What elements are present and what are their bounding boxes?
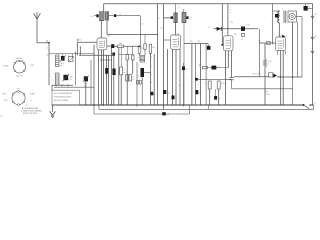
svg-text:PLATE: PLATE: [30, 92, 36, 95]
resistor R8 zigzag: [263, 60, 266, 67]
svg-text:ose: ose: [46, 55, 49, 57]
wire V2 grid link: [164, 39, 171, 41]
svg-text:WITH NO SIGNAL: WITH NO SIGNAL: [54, 99, 68, 102]
svg-text:10: 10: [132, 79, 134, 81]
svg-text:mf: mf: [123, 72, 125, 74]
wire antenna lead-in: [37, 42, 49, 44]
wire T2 tap down: [175, 23, 177, 35]
svg-text:FROM TOP SIDE: FROM TOP SIDE: [23, 113, 38, 115]
switch S1 dot: [303, 104, 305, 106]
wire sec drop b: [301, 17, 303, 78]
svg-text:2M: 2M: [217, 67, 220, 69]
wire R7 drop: [218, 89, 220, 105]
wire osc feed drop: [139, 16, 141, 47]
wire C23 drop: [183, 70, 185, 107]
inductor L3 secondary: [77, 41, 97, 43]
wire antenna down-lead: [48, 43, 50, 86]
wire into V4 grid: [259, 42, 275, 44]
resistor R5: [203, 66, 208, 69]
capacitor C1 tuning gang: [61, 56, 65, 61]
svg-text:SHOWN AT SOCKETS: SHOWN AT SOCKETS: [54, 95, 72, 98]
wire B minus bus: [99, 108, 314, 110]
wire ground bus right: [309, 104, 313, 106]
node T1 right dot: [114, 14, 116, 17]
node pot net b: [292, 76, 294, 78]
wire mid drop 106: [105, 55, 107, 105]
socket diagram SK2 circle: [12, 91, 25, 104]
wire R2 down: [139, 53, 141, 55]
capacitor C5 coupling: [111, 44, 114, 48]
wire V3 lead 2: [227, 51, 229, 68]
wire AVC rail: [221, 4, 223, 45]
wire C22 drop bottom: [120, 75, 122, 105]
wire mid drop 111: [110, 47, 112, 105]
label bias note: [264, 91, 266, 96]
wire C19 tie: [305, 4, 307, 6]
wire IF line: [184, 43, 208, 45]
wire ground bus: [52, 104, 304, 106]
op-amp V4 output tube: [276, 37, 286, 51]
battery B3 chevron: [311, 51, 314, 53]
svg-text:ALL VOLTAGE VALUES: ALL VOLTAGE VALUES: [54, 92, 73, 95]
wire B minus riser b: [313, 105, 315, 109]
svg-text:50: 50: [137, 76, 139, 78]
wire R8 bottom: [264, 67, 266, 106]
wire T3 rail A: [150, 53, 152, 105]
wire C22 drop top: [120, 46, 122, 67]
capacitor C24 coupling: [207, 46, 211, 50]
wire R3 drop: [144, 35, 146, 44]
svg-text:C: C: [53, 80, 55, 82]
svg-text:2: 2: [138, 65, 139, 67]
capacitor C23 bypass: [182, 67, 185, 71]
resistor R1: [118, 45, 124, 48]
inductor L1 antenna coil: [56, 55, 60, 67]
node bus j1: [93, 104, 95, 106]
wire T1 secondary drop: [106, 20, 108, 35]
wire V1 cathode lead 2: [100, 50, 102, 105]
wire V4 plate top: [278, 23, 280, 37]
svg-text:L5: L5: [189, 19, 191, 21]
wire pot out: [277, 76, 302, 78]
wire B minus mid riser: [208, 105, 210, 109]
svg-text:T: T: [282, 9, 284, 11]
svg-text:L4: L4: [178, 7, 180, 9]
wire V2 lead 3: [175, 49, 177, 105]
wire gang tie: [62, 54, 64, 57]
diode D1: [217, 27, 221, 31]
node T2 right dot: [186, 16, 188, 19]
capacitor C19 blob: [304, 6, 308, 11]
wire V2 lead 1: [167, 49, 169, 105]
wire padder drop 2: [90, 60, 92, 105]
svg-text:4: 4: [129, 58, 130, 60]
wire trimmer drop: [74, 52, 76, 86]
svg-text:VOL CTRL: VOL CTRL: [252, 73, 261, 75]
svg-text:2: 2: [151, 74, 152, 76]
capacitor C14 on drop: [195, 90, 198, 94]
capacitor C6 bypass: [112, 53, 115, 56]
wire drop 192.5: [191, 44, 193, 105]
node T4 top blob: [275, 14, 279, 18]
svg-text:250v: 250v: [266, 94, 270, 96]
svg-text:5: 5: [204, 83, 205, 85]
svg-text:pF: pF: [70, 79, 72, 81]
wire mid drop 104: [103, 55, 105, 105]
wire cathode link 60: [100, 59, 111, 61]
svg-text:25: 25: [142, 24, 144, 26]
wire T1 dot link: [109, 15, 114, 17]
wire volume line: [234, 76, 269, 78]
capacitor C9 electrolytic: [141, 68, 145, 77]
wire T2 right down: [183, 23, 185, 105]
node pot net a: [280, 76, 282, 78]
svg-text:+: +: [138, 70, 139, 72]
speaker SP1 frame: [288, 11, 297, 22]
wire C7C8 top link: [119, 54, 134, 56]
svg-text:2k: 2k: [142, 48, 144, 50]
wire C8 drop: [132, 60, 134, 74]
wire V4 lead 1: [277, 51, 279, 56]
wire osc rail: [163, 4, 165, 110]
wire C6 drop: [113, 56, 115, 105]
wire cluster right rail: [93, 45, 95, 105]
svg-text:.1: .1: [154, 94, 156, 96]
wire V1 lead 3: [103, 50, 105, 56]
wire heater bus: [94, 113, 190, 115]
wire T3 link: [144, 72, 151, 74]
wire V3 lead 3: [231, 51, 233, 78]
wire mid drop 108: [107, 55, 109, 105]
resistor R2: [138, 47, 141, 53]
wire B minus riser a: [98, 105, 100, 109]
wire drop 200.5: [199, 44, 201, 105]
wire speaker drop: [292, 22, 294, 77]
svg-text:12: 12: [208, 27, 210, 29]
wire tuning lower link: [54, 86, 94, 88]
transformer T4 core: [283, 11, 285, 24]
wire sec link: [297, 16, 303, 18]
op-amp V3 detector tube: [224, 36, 234, 51]
label L3: [76, 39, 78, 41]
wire top B+ bus: [104, 3, 314, 5]
svg-text:0.05: 0.05: [246, 25, 250, 27]
svg-text:V3: V3: [234, 34, 237, 36]
node T1 left dot: [96, 14, 98, 17]
svg-text:+A: +A: [167, 113, 170, 116]
svg-text:A: A: [315, 12, 317, 15]
wire R1 out: [123, 45, 139, 47]
wire T4 feed: [272, 4, 274, 45]
wire T1 left link: [94, 15, 96, 17]
wire T1 feed from bus: [103, 4, 105, 12]
capacitor C3 tuning gang: [63, 75, 68, 80]
svg-text:25: 25: [241, 39, 243, 41]
svg-text:1: 1: [223, 17, 224, 19]
trimmer C11: [139, 81, 141, 85]
ground G1: [52, 105, 54, 112]
svg-text:.05: .05: [167, 92, 170, 94]
svg-text:12k: 12k: [190, 41, 193, 43]
wire T2 stub b: [183, 9, 185, 12]
svg-text:30k: 30k: [152, 47, 155, 49]
wire T3 rail B: [153, 54, 155, 105]
op-amp V1 pentagrid tube: [97, 38, 107, 50]
potentiometer VR1: [269, 73, 273, 77]
wire C9 bottom lead: [141, 77, 143, 105]
capacitor C8: [132, 55, 135, 60]
svg-text:41: 41: [26, 105, 28, 107]
svg-text:S: S: [314, 103, 316, 105]
wire drop 195.5: [195, 44, 197, 105]
capacitor C26 pair b: [129, 75, 132, 82]
wire V3 lead 1: [225, 51, 227, 105]
wire V1 plate out: [107, 45, 111, 47]
capacitor C12 on rail: [150, 92, 153, 96]
wire C18 down: [231, 80, 233, 89]
svg-text:7.5k: 7.5k: [197, 41, 201, 43]
svg-text:8: 8: [309, 6, 310, 8]
switch S1 lever: [304, 105, 310, 109]
wire R8 top: [264, 43, 266, 60]
svg-text:0.1: 0.1: [186, 68, 189, 70]
transformer T2 winding 1: [174, 13, 178, 23]
speaker SP1 cone: [289, 13, 295, 19]
trimmer C10: [137, 81, 139, 85]
capacitor C20 on bus: [162, 112, 166, 115]
wire R5 out: [208, 67, 229, 69]
svg-text:B: B: [0, 115, 2, 117]
wire sec drop a: [296, 22, 298, 77]
capacitor C22: [120, 67, 123, 75]
resistor R3: [144, 44, 146, 50]
capacitor C27: [105, 68, 108, 74]
resistor R7: [217, 81, 220, 89]
node AVC dot: [221, 44, 223, 46]
wire heater riser a: [93, 105, 95, 114]
svg-text:b: b: [230, 12, 231, 14]
wire audio line: [197, 78, 232, 80]
node bus j2: [103, 104, 105, 106]
op-amp V2 IF tube: [171, 35, 181, 49]
transformer T2 winding 2: [182, 12, 186, 22]
svg-text:6A7 6D6: 6A7 6D6: [16, 74, 23, 77]
capacitor C26 pair a: [126, 75, 129, 82]
capacitor C21 electrolytic: [112, 69, 115, 76]
diode D3 mark: [282, 35, 285, 38]
wire T2 stub a: [175, 4, 177, 13]
wire det drop: [258, 29, 260, 77]
svg-text:pF: pF: [61, 65, 64, 67]
transformer T1 winding b: [105, 12, 109, 20]
svg-text:PLATE: PLATE: [3, 65, 9, 68]
svg-text:75k: 75k: [230, 22, 233, 24]
svg-text:K: K: [31, 101, 33, 103]
svg-text:GRID: GRID: [2, 93, 7, 95]
capacitor C7: [126, 55, 129, 61]
wire grid return: [79, 54, 115, 56]
svg-text:GRID CAP: GRID CAP: [15, 59, 24, 62]
wire V4 lead 4: [284, 51, 286, 55]
socket diagram SK1 circle: [14, 61, 26, 73]
note box: [52, 90, 80, 105]
node audio node: [195, 78, 198, 81]
wire tuning bottom link: [52, 84, 73, 86]
svg-text:6: 6: [185, 10, 186, 12]
svg-text:5: 5: [151, 66, 152, 68]
svg-text:P K: P K: [17, 88, 21, 90]
wire tuning top link: [49, 53, 94, 55]
wire screen feed line: [107, 34, 158, 36]
node plate net: [139, 45, 141, 47]
transformer T4 primary bumps: [278, 11, 280, 23]
node T3 junction: [142, 75, 144, 77]
inductor L2 osc coil: [56, 73, 60, 85]
wire detector line: [214, 28, 259, 30]
svg-text:~: ~: [56, 80, 57, 82]
wire V2 lead 2: [172, 49, 174, 105]
transformer T3 primary: [140, 56, 145, 63]
diode D2 blob: [212, 66, 217, 70]
capacitor C25 grid: [267, 42, 270, 45]
svg-text:25: 25: [218, 98, 220, 100]
svg-text:25: 25: [158, 18, 160, 20]
battery B2 chevron: [311, 37, 314, 39]
svg-text:tr: tr: [68, 54, 69, 57]
wire R6 drop: [209, 89, 211, 105]
wire c17 stub: [215, 89, 217, 96]
capacitor C4 padder: [84, 76, 88, 81]
wire padder drop 1: [85, 81, 87, 105]
svg-text:L2: L2: [80, 40, 82, 42]
svg-text:6: 6: [151, 82, 152, 84]
svg-text:V1: V1: [108, 36, 111, 38]
svg-text:0.1: 0.1: [258, 40, 260, 42]
node T2 left dot: [171, 16, 173, 19]
svg-text:B: B: [315, 36, 317, 38]
pot wiper arrow: [273, 73, 277, 77]
svg-text:25: 25: [175, 98, 177, 100]
svg-text:5: 5: [286, 36, 287, 38]
capacitor C2 trimmer: [69, 57, 74, 62]
capacitor C13 on lead: [163, 90, 166, 94]
capacitor C16 small: [242, 34, 245, 37]
wire speaker drop tail: [292, 77, 294, 105]
svg-text:3: 3: [151, 57, 152, 59]
wire V4 lead 3: [282, 51, 284, 106]
capacitor C15 black: [241, 27, 245, 31]
svg-text:5k: 5k: [147, 45, 149, 47]
wire V3 top feed: [227, 4, 229, 36]
svg-text:1: 1: [187, 77, 188, 79]
svg-text:2G: 2G: [91, 16, 94, 18]
capacitor C28 on lead: [172, 96, 175, 100]
wire right supply rail: [312, 4, 314, 105]
capacitor C18 plates: [229, 77, 233, 79]
wire screen rail drop: [157, 4, 159, 105]
svg-text:0.1: 0.1: [178, 85, 181, 87]
wire T3 left rail: [136, 62, 138, 107]
wire C5 to R1: [114, 45, 117, 47]
wire osc top link: [164, 17, 171, 19]
svg-text:HTR: HTR: [4, 100, 8, 102]
resistor R6: [208, 81, 211, 89]
resistor R4: [149, 44, 152, 53]
antenna A1: [36, 19, 38, 43]
wire T1 to V1 grid cap: [100, 21, 102, 38]
svg-text:470k: 470k: [221, 83, 225, 85]
wire osc feed link: [116, 15, 140, 17]
wire coil to note box: [51, 85, 53, 90]
svg-text:HTR: HTR: [31, 65, 35, 67]
wire audio return: [232, 88, 293, 90]
wire drop 206: [205, 44, 207, 105]
svg-text:pd: pd: [161, 27, 163, 29]
wire heater riser b: [189, 105, 191, 114]
svg-text:25: 25: [132, 77, 134, 79]
capacitor C17 on drop: [214, 96, 217, 100]
svg-text:ae: ae: [46, 48, 48, 50]
svg-text:k: k: [268, 64, 269, 66]
battery B1 chevron: [311, 16, 314, 18]
wire C7 drop: [126, 60, 128, 105]
wire mid drop 119: [118, 47, 120, 105]
wire V4 lead 2: [280, 51, 282, 106]
wire V1 cathode lead 1: [98, 50, 100, 105]
wire V2 lead 4: [179, 49, 181, 105]
node antenna junction: [48, 42, 50, 44]
svg-text:5: 5: [264, 16, 265, 18]
transformer T1 winding a: [99, 12, 104, 21]
